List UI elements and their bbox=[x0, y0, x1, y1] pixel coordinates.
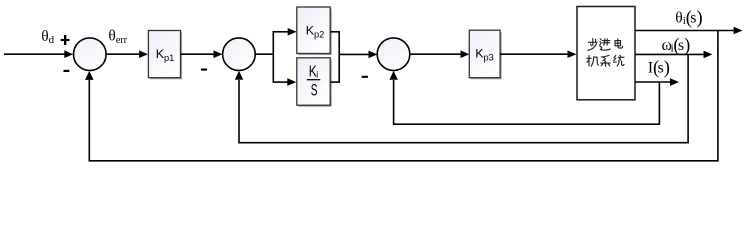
wire feedback omega loop bbox=[239, 54, 688, 142]
block Kp3 bbox=[469, 30, 501, 79]
wire S1 to Kp1 bbox=[106, 53, 139, 55]
wire Kp1 to S2 bbox=[181, 53, 214, 55]
hanzi xi (system) bbox=[601, 55, 611, 66]
wire merge vertical bbox=[338, 32, 340, 82]
wire Ki/s output to merge bbox=[331, 81, 341, 83]
svg-text:): ) bbox=[664, 58, 670, 78]
minus sign at summing junction 3 bbox=[362, 76, 368, 78]
block Kp2 bbox=[297, 7, 332, 55]
svg-text:): ) bbox=[697, 8, 703, 28]
wire S3 to Kp3 bbox=[410, 53, 461, 55]
wire Kp2 output to merge bbox=[331, 31, 341, 33]
block Ki/s bbox=[297, 58, 332, 107]
plus sign at summing junction 1 bbox=[61, 35, 70, 45]
wire merge to S3 bbox=[339, 53, 368, 55]
wire plant to current output bbox=[635, 81, 670, 83]
wire Kp3 to plant bbox=[500, 53, 567, 55]
summing junction circle S3 bbox=[377, 38, 410, 71]
wire branch to Ki/s bbox=[273, 81, 288, 83]
wire S2 to branch point bbox=[255, 53, 274, 55]
hanzi tong (unite) bbox=[613, 55, 624, 66]
svg-text:i: i bbox=[316, 70, 318, 80]
svg-text:S: S bbox=[311, 81, 318, 99]
block stepper motor system bbox=[577, 7, 635, 100]
wire plant to theta output bbox=[635, 30, 734, 32]
wire feedback current loop bbox=[394, 80, 660, 124]
wire plant to omega output bbox=[635, 53, 704, 55]
wire input bbox=[4, 53, 65, 55]
summing junction circle S1 bbox=[74, 38, 107, 71]
hanzi dian (electric) bbox=[615, 39, 623, 48]
block Kp1 bbox=[148, 31, 182, 80]
svg-text:): ) bbox=[684, 36, 690, 56]
wire feedback theta loop bbox=[89, 31, 718, 161]
hanzi bu (step) bbox=[588, 39, 597, 51]
wire branch vertical bbox=[272, 32, 274, 82]
minus sign at summing junction 1 bbox=[64, 70, 70, 72]
summing junction circle S2 bbox=[223, 38, 256, 71]
minus sign at summing junction 2 bbox=[201, 69, 207, 71]
hanzi jin (enter) bbox=[600, 39, 611, 50]
svg-text:θ: θ bbox=[675, 10, 682, 27]
wire branch to Kp2 bbox=[273, 31, 289, 33]
hanzi ji (machine) bbox=[587, 56, 598, 67]
